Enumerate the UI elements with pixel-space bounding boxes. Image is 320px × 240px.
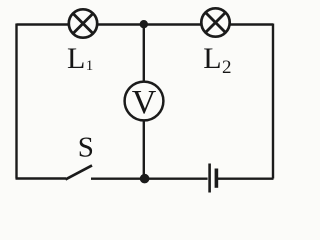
svg-text:1: 1 (86, 58, 94, 74)
svg-text:V: V (132, 84, 157, 121)
svg-text:2: 2 (222, 57, 232, 78)
svg-text:L: L (67, 42, 85, 75)
svg-text:L: L (203, 42, 221, 75)
svg-text:S: S (78, 131, 94, 163)
